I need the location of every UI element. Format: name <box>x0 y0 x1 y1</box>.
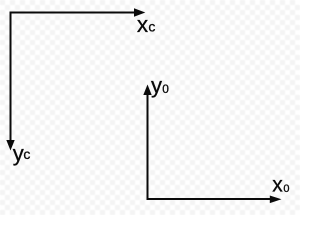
arrowhead yc <box>6 140 14 151</box>
svg-text:c: c <box>23 146 30 162</box>
wire: yc axis line <box>10 12 12 142</box>
svg-text:x: x <box>272 174 283 197</box>
arrowhead xc <box>134 8 145 17</box>
wire: xc axis line <box>10 12 136 14</box>
arrowhead y0 <box>143 85 151 96</box>
svg-text:0: 0 <box>283 183 289 195</box>
svg-text:x: x <box>137 12 149 37</box>
svg-text:c: c <box>148 19 155 35</box>
svg-text:y: y <box>151 73 162 98</box>
svg-text:y: y <box>13 141 24 166</box>
wire: y0 axis line <box>147 94 149 200</box>
wire: x0 axis line <box>147 198 272 200</box>
svg-text:0: 0 <box>162 82 169 96</box>
arrowhead x0 <box>270 196 282 204</box>
